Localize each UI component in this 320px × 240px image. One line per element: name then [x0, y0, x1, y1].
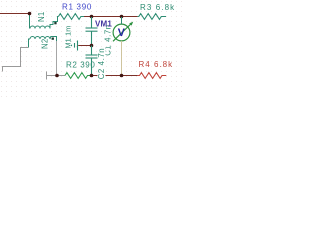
node dot top VM	[120, 15, 124, 19]
wire N2 left to bottom-left corner (gray)	[3, 48, 29, 72]
svg-text:N1: N1	[37, 12, 46, 22]
node dot bottom transformer	[55, 74, 59, 78]
capacitor C1	[86, 17, 98, 46]
svg-text:N2: N2	[41, 39, 50, 49]
wire input left (brown)	[0, 13, 30, 15]
svg-text:VM1: VM1	[95, 19, 112, 28]
background	[0, 0, 185, 100]
inductor N1 (transformer primary winding)	[30, 14, 59, 29]
inductor N2 (transformer secondary winding)	[29, 37, 57, 48]
voltmeter VM1	[113, 24, 131, 41]
capacitor C2	[86, 46, 98, 76]
resistor R2 (green)	[65, 73, 92, 79]
resistor R3	[138, 14, 166, 20]
wire top rail (brown)	[84, 16, 138, 18]
wire bottom rail (brown)	[92, 75, 138, 77]
node dot bottom VM	[120, 74, 124, 78]
node dot bottom C2	[90, 74, 94, 78]
label C2 background	[98, 47, 106, 80]
ground lead wire	[78, 45, 91, 47]
wire N2 right down to bottom rail (gray)	[56, 41, 58, 76]
wire to R2 (gray)	[57, 75, 65, 77]
svg-text:C2 4.7n: C2 4.7n	[97, 48, 106, 80]
ground at mid node	[72, 41, 78, 51]
bottom rail left end (gray)	[47, 72, 58, 80]
svg-text:R3 6.8k: R3 6.8k	[140, 3, 175, 12]
needle arrowhead	[129, 22, 133, 26]
node junction dot top-left	[28, 12, 32, 16]
svg-text:R4 6.8k: R4 6.8k	[139, 60, 174, 69]
node dot mid	[90, 44, 94, 48]
polarity square N1	[54, 22, 56, 24]
svg-text:R2 390: R2 390	[66, 60, 95, 69]
VM bottom lead (tan)	[121, 41, 123, 76]
polarity square N2	[52, 38, 54, 40]
resistor R4 (red)	[138, 73, 167, 79]
VM top lead	[121, 17, 123, 24]
svg-text:R1 390: R1 390	[62, 3, 92, 12]
svg-text:V: V	[118, 27, 125, 39]
node dot top C1	[90, 15, 94, 19]
resistor R1	[58, 14, 84, 20]
